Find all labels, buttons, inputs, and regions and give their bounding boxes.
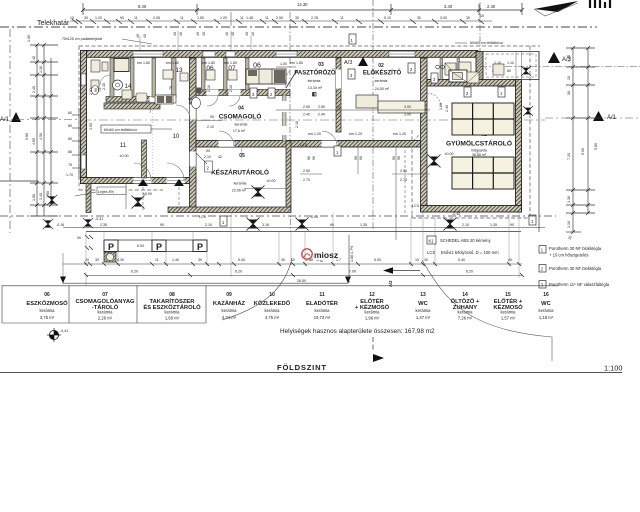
svg-text:-0.16: -0.16 <box>56 223 64 227</box>
svg-text:06: 06 <box>206 65 214 72</box>
room labels <box>120 62 512 193</box>
svg-text:1.20: 1.20 <box>220 16 227 20</box>
svg-text:Telekhatár: Telekhatár <box>37 20 70 27</box>
svg-text:06: 06 <box>253 63 261 70</box>
wall tags <box>220 63 536 226</box>
svg-text:40: 40 <box>179 32 183 36</box>
svg-text:1,57 m²: 1,57 m² <box>501 316 516 321</box>
svg-text:Esővíz lefolyócső, D = 100 mm: Esővíz lefolyócső, D = 100 mm <box>441 250 499 255</box>
svg-text:9.80: 9.80 <box>594 143 598 150</box>
svg-text:2.78: 2.78 <box>311 16 318 20</box>
svg-text:2.50: 2.50 <box>276 16 283 20</box>
terrace edge y231 <box>86 231 521 233</box>
svg-text:1.35: 1.35 <box>360 223 367 227</box>
svg-text:11: 11 <box>265 16 269 20</box>
svg-text:12: 12 <box>369 292 375 298</box>
svg-text:2.10: 2.10 <box>295 121 299 128</box>
svg-text:2.70: 2.70 <box>303 178 310 182</box>
svg-text:-0,41: -0,41 <box>60 329 68 333</box>
svg-text:™ hu: ™ hu <box>316 259 324 263</box>
A/3 marker inside plan <box>358 57 368 66</box>
svg-text:90: 90 <box>120 16 124 20</box>
svg-text:40: 40 <box>508 258 512 262</box>
svg-text:1.80: 1.80 <box>32 194 36 201</box>
dim line y227 <box>63 227 545 229</box>
svg-text:2.05: 2.05 <box>153 16 160 20</box>
elokeszito counter <box>356 95 378 108</box>
crate grids gyumolcstarolo <box>452 103 514 189</box>
terrace south slab <box>168 207 291 213</box>
svg-text:2.10: 2.10 <box>229 85 233 92</box>
rotated dims left room <box>89 88 192 130</box>
svg-text:40: 40 <box>173 32 177 36</box>
svg-text:em 1.20: em 1.20 <box>393 132 406 136</box>
small dims inside <box>169 85 449 159</box>
svg-text:10: 10 <box>85 258 89 262</box>
svg-text:2.40: 2.40 <box>445 105 449 112</box>
svg-text:Helyiségek hasznos alapterület: Helyiségek hasznos alapterülete összesen… <box>280 328 435 335</box>
svg-text:-0.05: -0.05 <box>310 215 318 219</box>
svg-text:1.50: 1.50 <box>89 123 93 130</box>
eaves dashed outline <box>79 46 540 218</box>
south wall of middle block y141 <box>196 141 425 148</box>
svg-text:-0.40: -0.40 <box>452 212 460 216</box>
partition wall below pasztorozo left <box>283 95 287 141</box>
svg-text:40: 40 <box>251 32 255 36</box>
svg-text:KAZÁNHÁZ: KAZÁNHÁZ <box>213 300 246 307</box>
svg-text:2.40: 2.40 <box>318 113 325 117</box>
svg-text:LCS: LCS <box>300 143 308 147</box>
vertical axis dashes top <box>231 0 480 148</box>
tag 1 above wall <box>349 34 356 44</box>
svg-text:80: 80 <box>68 124 72 128</box>
svg-text:2.10: 2.10 <box>207 125 214 129</box>
svg-text:2.50: 2.50 <box>400 169 407 173</box>
north wall band <box>81 51 478 58</box>
svg-text:2.10: 2.10 <box>205 223 212 227</box>
svg-text:6.00: 6.00 <box>137 244 144 248</box>
svg-text:04: 04 <box>238 106 244 112</box>
svg-text:16: 16 <box>543 292 549 298</box>
svg-text:2.35: 2.35 <box>100 223 107 227</box>
door leaf pasztorozo <box>286 70 297 88</box>
counter band room 11 <box>104 103 160 109</box>
counters row eszkozmoso <box>246 69 286 84</box>
svg-text:40: 40 <box>245 32 249 36</box>
svg-text:1.00: 1.00 <box>439 103 443 110</box>
wall tag 2 keszaru <box>205 161 213 172</box>
svg-text:2,26 m²: 2,26 m² <box>98 316 113 321</box>
partitions in left cluster <box>110 58 249 97</box>
terrace left strip <box>86 184 91 213</box>
svg-text:kerámia: kerámia <box>165 310 181 315</box>
svg-text:1.30: 1.30 <box>567 196 571 203</box>
svg-text:90: 90 <box>510 223 514 227</box>
svg-text:14.30: 14.30 <box>297 2 308 7</box>
vline x349 with arrow <box>348 235 350 283</box>
svg-text:+ 10 cm hőszigetelés: + 10 cm hőszigetelés <box>549 253 588 258</box>
svg-text:30: 30 <box>77 236 81 240</box>
svg-text:30: 30 <box>567 91 571 95</box>
watermark miosz <box>302 249 338 263</box>
svg-text:2.50: 2.50 <box>303 105 310 109</box>
svg-text:Porotherm 11⁵ NF válaszfaltégl: Porotherm 11⁵ NF válaszfaltégla <box>549 282 610 287</box>
WC fixtures <box>163 70 237 103</box>
svg-text:1.00: 1.00 <box>27 35 31 42</box>
svg-text:11: 11 <box>155 258 159 262</box>
keszaru right wall <box>286 141 291 207</box>
svg-text:75: 75 <box>337 106 341 110</box>
svg-text:02: 02 <box>378 63 384 69</box>
svg-text:42: 42 <box>188 97 192 101</box>
svg-text:30: 30 <box>295 16 299 20</box>
small tick pairs above wall <box>173 32 255 36</box>
svg-text:2.93: 2.93 <box>89 88 93 95</box>
washbasin at divider wall <box>192 98 201 109</box>
svg-text:11: 11 <box>180 16 184 20</box>
extension lines to bottom dims <box>86 213 519 286</box>
svg-text:7.90: 7.90 <box>349 270 356 274</box>
svg-text:60: 60 <box>68 137 72 141</box>
svg-text:2.70: 2.70 <box>400 178 407 182</box>
west wall band <box>81 51 87 184</box>
svg-text:PASZTŐRÖZŐ: PASZTŐRÖZŐ <box>294 70 336 77</box>
drain X symbols left <box>43 195 103 229</box>
line B y275.5 <box>86 275 522 277</box>
svg-text:kerámia: kerámia <box>308 79 321 83</box>
svg-text:kerámia: kerámia <box>375 79 388 83</box>
svg-text:kerámia: kerámia <box>501 310 517 315</box>
svg-text:11: 11 <box>120 143 127 149</box>
door arcs <box>134 93 441 180</box>
svg-text:22,06 m²: 22,06 m² <box>232 189 247 193</box>
svg-text:4.50: 4.50 <box>32 138 36 145</box>
line A y264 <box>63 263 522 265</box>
svg-text:60x60 cm tetőkibúvó: 60x60 cm tetőkibúvó <box>470 41 503 45</box>
svg-text:K1: K1 <box>429 239 435 244</box>
svg-text:műgyanta: műgyanta <box>471 149 487 153</box>
svg-text:kerámia: kerámia <box>40 308 56 313</box>
svg-text:4.30: 4.30 <box>117 258 124 262</box>
svg-text:P: P <box>108 242 114 252</box>
svg-text:3.00: 3.00 <box>404 113 411 117</box>
svg-text:3.16: 3.16 <box>262 223 269 227</box>
svg-text:30: 30 <box>424 258 428 262</box>
svg-text:90: 90 <box>160 223 164 227</box>
svg-text:8.40: 8.40 <box>138 4 147 9</box>
svg-text:A/3: A/3 <box>344 60 352 66</box>
drain symbols in plan <box>132 196 145 209</box>
svg-text:em 1.20: em 1.20 <box>349 132 362 136</box>
svg-text:08: 08 <box>169 292 175 298</box>
svg-text:90: 90 <box>354 156 358 160</box>
svg-text:FÖLDSZINT: FÖLDSZINT <box>277 363 327 372</box>
svg-text:kerámia: kerámia <box>98 310 114 315</box>
line at far left <box>0 180 38 182</box>
svg-text:40: 40 <box>231 32 235 36</box>
svg-text:SCHEDEL ABS 20 kémény: SCHEDEL ABS 20 kémény <box>440 238 491 243</box>
svg-text:6.20: 6.20 <box>131 270 138 274</box>
benchmark -0.41 <box>47 328 68 342</box>
svg-text:75: 75 <box>203 91 207 95</box>
svg-text:40: 40 <box>32 56 36 60</box>
svg-text:ESZKÖZMOSÓ: ESZKÖZMOSÓ <box>26 299 68 307</box>
svg-text:6.20: 6.20 <box>235 270 242 274</box>
svg-text:2.10: 2.10 <box>102 83 106 90</box>
svg-text:75: 75 <box>169 86 173 90</box>
interior horizontal wall y90 (rooms 06/07) <box>192 90 290 96</box>
svg-text:LCS: LCS <box>427 250 435 255</box>
svg-text:2.50: 2.50 <box>303 169 310 173</box>
room15 fixtures <box>91 60 108 88</box>
top dimension chain line 1 <box>83 3 522 15</box>
svg-text:10: 10 <box>480 14 484 18</box>
door threshold wedges <box>138 179 148 186</box>
window gaps in north wall <box>133 51 415 56</box>
tick marks on line2 <box>72 19 484 24</box>
svg-text:06: 06 <box>44 292 50 298</box>
svg-text:13: 13 <box>420 292 426 298</box>
shower square room14 <box>114 59 129 72</box>
basin circle <box>113 80 123 90</box>
svg-text:2.40: 2.40 <box>303 113 310 117</box>
svg-text:1.10: 1.10 <box>507 61 514 65</box>
south wall of west block <box>81 178 197 184</box>
svg-text:30: 30 <box>84 16 88 20</box>
svg-text:3.40: 3.40 <box>444 4 453 9</box>
svg-text:1:100: 1:100 <box>604 364 623 373</box>
svg-text:42: 42 <box>218 155 222 159</box>
dotted construction line room11 <box>152 110 154 177</box>
telekhatar property line <box>0 26 597 28</box>
porch outline <box>483 52 539 80</box>
svg-text:Porotherm 30 NF blokktégla: Porotherm 30 NF blokktégla <box>549 246 602 251</box>
level texts <box>199 143 460 219</box>
svg-text:9.80: 9.80 <box>25 133 29 140</box>
svg-text:07: 07 <box>102 292 108 298</box>
svg-text:11: 11 <box>340 16 344 20</box>
svg-text:-0.31: -0.31 <box>95 217 103 221</box>
svg-text:2.50: 2.50 <box>318 105 325 109</box>
svg-text:90: 90 <box>392 156 396 160</box>
line C y284 (26.50) <box>63 282 348 284</box>
svg-text:em 1.80: em 1.80 <box>137 61 150 65</box>
small dim column x=75 <box>72 108 86 178</box>
svg-text:2.10: 2.10 <box>204 155 211 159</box>
svg-text:7,26 m²: 7,26 m² <box>458 316 473 321</box>
svg-text:kerámia: kerámia <box>365 310 381 315</box>
svg-text:90: 90 <box>210 115 214 119</box>
svg-text:86: 86 <box>68 150 72 154</box>
svg-text:WC: WC <box>418 301 428 307</box>
svg-text:90: 90 <box>330 223 334 227</box>
svg-text:11: 11 <box>134 16 138 20</box>
svg-text:60: 60 <box>68 111 72 115</box>
svg-text:40: 40 <box>225 32 229 36</box>
svg-text:13: 13 <box>175 67 183 74</box>
north arrow top right <box>534 0 610 16</box>
svg-text:40: 40 <box>202 32 206 36</box>
svg-text:40: 40 <box>136 34 140 38</box>
svg-text:3.00: 3.00 <box>440 16 447 20</box>
svg-text:40: 40 <box>143 34 147 38</box>
svg-text:7.20: 7.20 <box>567 153 571 160</box>
svg-text:38,88 m²: 38,88 m² <box>472 153 487 157</box>
extra fixtures cluster <box>122 90 173 104</box>
svg-text:90: 90 <box>359 156 363 160</box>
svg-text:09: 09 <box>226 292 232 298</box>
vent pipes circles <box>436 65 440 69</box>
svg-text:30: 30 <box>95 258 99 262</box>
courtyard construction lines <box>291 128 431 240</box>
svg-text:75x125 cm padlásfeljárat: 75x125 cm padlásfeljárat <box>62 37 102 41</box>
svg-text:5.00: 5.00 <box>374 258 381 262</box>
svg-text:ELŐTÉR: ELŐTÉR <box>360 297 384 305</box>
svg-text:TAKARÍTÓSZER: TAKARÍTÓSZER <box>150 297 196 305</box>
svg-text:P: P <box>156 242 162 252</box>
svg-text:1.40: 1.40 <box>39 193 43 200</box>
svg-text:kerámia: kerámia <box>539 308 555 313</box>
svg-text:em 1.80: em 1.80 <box>290 61 303 65</box>
interior horizontal wall y97 <box>106 97 172 103</box>
svg-text:ELŐTÉR +: ELŐTÉR + <box>494 297 523 305</box>
svg-text:30: 30 <box>417 16 421 20</box>
svg-text:em 1.80: em 1.80 <box>202 61 215 65</box>
svg-text:75: 75 <box>68 163 72 167</box>
svg-text:90: 90 <box>307 156 311 160</box>
Lejtes 8% <box>97 187 126 195</box>
svg-text:1,47 m²: 1,47 m² <box>416 315 431 320</box>
svg-text:30: 30 <box>198 258 202 262</box>
svg-text:em 1.80: em 1.80 <box>166 61 179 65</box>
svg-text:CSOMAGOLÓ: CSOMAGOLÓ <box>219 112 262 121</box>
svg-text:10: 10 <box>567 76 571 80</box>
svg-text:90: 90 <box>94 88 98 92</box>
svg-text:1.30: 1.30 <box>39 66 43 73</box>
svg-text:10: 10 <box>269 292 275 298</box>
svg-text:±0.00: ±0.00 <box>445 152 454 156</box>
svg-text:1.00: 1.00 <box>280 62 287 66</box>
svg-text:05: 05 <box>239 153 245 159</box>
svg-text:11: 11 <box>319 292 325 298</box>
svg-text:6.20: 6.20 <box>466 270 473 274</box>
A/1 marker left <box>11 112 21 122</box>
svg-text:2.10: 2.10 <box>462 223 469 227</box>
svg-text:13,34 m²: 13,34 m² <box>308 86 323 90</box>
K1 chimney block <box>449 70 467 82</box>
svg-text:10: 10 <box>415 258 419 262</box>
svg-text:1,60 m²: 1,60 m² <box>165 316 180 321</box>
svg-text:1,96 m²: 1,96 m² <box>365 316 380 321</box>
svg-text:kerámia: kerámia <box>265 308 281 313</box>
svg-text:5.10: 5.10 <box>384 16 391 20</box>
svg-text:14: 14 <box>125 84 132 90</box>
svg-text:75: 75 <box>225 91 229 95</box>
svg-text:07: 07 <box>228 65 236 72</box>
internal dim line y110 <box>276 109 430 111</box>
svg-text:14: 14 <box>462 292 468 298</box>
svg-text:2.40: 2.40 <box>32 86 36 93</box>
svg-text:ELADÓTÉR: ELADÓTÉR <box>306 299 339 307</box>
svg-text:1.40: 1.40 <box>567 55 571 62</box>
svg-text:KÉSZÁRUTÁROLÓ: KÉSZÁRUTÁROLÓ <box>211 168 269 177</box>
svg-text:90: 90 <box>397 156 401 160</box>
svg-text:GYÜMÖLCSTÁROLÓ: GYÜMÖLCSTÁROLÓ <box>446 139 512 148</box>
A/2 arrow <box>383 267 393 274</box>
svg-text:90: 90 <box>206 149 210 153</box>
svg-text:4,75 m²: 4,75 m² <box>265 315 280 320</box>
svg-text:30: 30 <box>466 16 470 20</box>
svg-text:Lejtés 8%: Lejtés 8% <box>98 190 115 194</box>
svg-text:1.10: 1.10 <box>567 221 571 228</box>
svg-text:3.00: 3.00 <box>404 105 411 109</box>
RIGHT dimension band <box>548 52 560 63</box>
svg-text:03: 03 <box>318 62 324 68</box>
svg-text:CSOMAGOLÓANYAG: CSOMAGOLÓANYAG <box>75 297 135 305</box>
svg-text:1.40: 1.40 <box>172 258 179 262</box>
svg-text:1.70: 1.70 <box>66 173 73 177</box>
svg-text:±0.00: ±0.00 <box>267 179 276 183</box>
gyumolcs bottom wall <box>421 206 522 213</box>
east wall at porch <box>476 52 483 80</box>
svg-text:15: 15 <box>505 292 511 298</box>
svg-text:4.50: 4.50 <box>39 133 43 140</box>
svg-text:LCS: LCS <box>199 215 207 219</box>
A/2 bottom marker <box>372 337 374 352</box>
LEFT dimension band <box>10 29 58 233</box>
svg-text:10: 10 <box>173 134 180 140</box>
dashdot terrace line y216 <box>0 215 556 217</box>
svg-text:26.50: 26.50 <box>297 279 306 283</box>
svg-text:kerámia: kerámia <box>315 308 331 313</box>
svg-text:±0.00: ±0.00 <box>120 154 129 158</box>
svg-text:em 1.80: em 1.80 <box>224 61 237 65</box>
em labels <box>137 61 406 136</box>
top dimension chain line 2 <box>70 20 492 22</box>
svg-text:kerámia: kerámia <box>235 123 248 127</box>
A/1 axis dash-dot through plan <box>82 119 545 121</box>
svg-text:3,75 m²: 3,75 m² <box>40 315 55 320</box>
svg-text:60: 60 <box>507 69 511 73</box>
svg-text:WC: WC <box>541 301 551 307</box>
60x60 latokivaro box <box>101 125 151 133</box>
svg-text:ELŐKÉSZÍTŐ: ELŐKÉSZÍTŐ <box>363 69 402 77</box>
svg-text:kerámia: kerámia <box>416 308 432 313</box>
svg-text:A/1: A/1 <box>0 117 10 123</box>
svg-text:17,6 m²: 17,6 m² <box>233 129 246 133</box>
svg-text:Porotherm 30 NF blokktégla: Porotherm 30 NF blokktégla <box>549 266 602 271</box>
svg-text:LCS: LCS <box>412 204 420 208</box>
svg-text:90: 90 <box>312 156 316 160</box>
svg-text:5.40: 5.40 <box>238 258 245 262</box>
svg-text:1.35: 1.35 <box>490 223 497 227</box>
gyumolcs right wall <box>516 80 522 213</box>
svg-text:2.40: 2.40 <box>487 4 496 9</box>
svg-text:30: 30 <box>281 258 285 262</box>
elokeszito right wall / gyumolcs left wall <box>421 58 428 212</box>
svg-text:24,50 m²: 24,50 m² <box>375 87 390 91</box>
svg-text:5.40: 5.40 <box>458 258 465 262</box>
pasztorozo left wall <box>336 58 341 132</box>
svg-text:1.50: 1.50 <box>197 16 204 20</box>
svg-text:11: 11 <box>240 16 244 20</box>
svg-text:kerámia: kerámia <box>234 182 247 186</box>
svg-text:19,73 m²: 19,73 m² <box>314 315 331 320</box>
svg-text:40: 40 <box>196 32 200 36</box>
site curves <box>222 258 292 320</box>
gyumolcs top wall <box>427 80 516 87</box>
svg-text:1,18 m²: 1,18 m² <box>539 315 554 320</box>
